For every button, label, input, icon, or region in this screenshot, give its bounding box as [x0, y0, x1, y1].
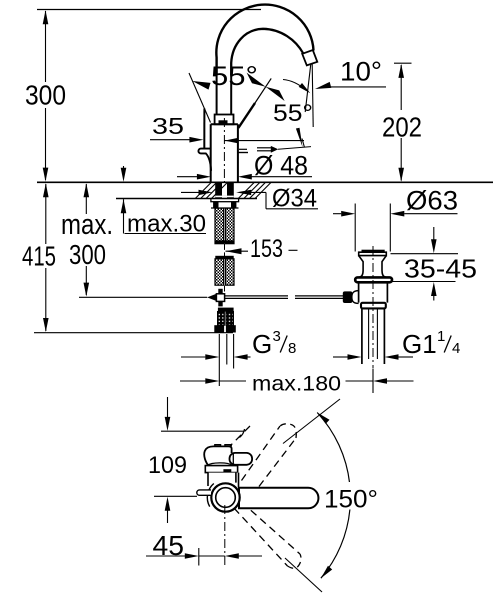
svg-text:153: 153: [250, 235, 283, 263]
faucet body: [211, 124, 238, 181]
svg-text:max.180: max.180: [252, 373, 341, 396]
waste locking ring: [361, 303, 386, 309]
flexible hoses: [218, 308, 234, 312]
plan lever grip: [230, 453, 253, 465]
svg-text:35-45: 35-45: [404, 254, 477, 284]
dimension diameter 63 extension lines: [354, 204, 356, 252]
dimension 153 leader: [226, 248, 242, 254]
svg-text:202: 202: [382, 112, 422, 143]
dimension 109 bottom extension: [154, 495, 197, 497]
angle 150 leg upper: [283, 399, 340, 444]
dimension max.180: [180, 380, 205, 382]
deck hatch left: [196, 183, 212, 199]
dimension 109: [167, 397, 169, 417]
svg-text:G1: G1: [402, 329, 437, 359]
dimension diameter 63: [333, 213, 341, 215]
plan cap top tabs: [215, 445, 232, 447]
dimension 202 top tick: [394, 62, 412, 64]
svg-text:1: 1: [437, 328, 445, 345]
plan body circle inner: [216, 488, 236, 508]
angle 55 bowtie arrows: [247, 73, 266, 87]
dimension 300: [45, 11, 47, 82]
angle 10 leader: [322, 86, 386, 88]
plan centerline: [224, 505, 226, 566]
bottom extension line 415: [34, 332, 233, 334]
plan body circle outer: [211, 483, 239, 511]
svg-text:45: 45: [153, 530, 185, 561]
angle 55 - tilted line right: [238, 103, 255, 128]
dimension 300 top extension line: [37, 9, 261, 11]
angle 150 label: [320, 482, 382, 509]
pull rod T-joint: [224, 286, 226, 292]
svg-text:3: 3: [273, 328, 281, 345]
deck hatch right: [239, 183, 255, 199]
angle 55 first - left arrow: [192, 81, 210, 90]
svg-text:Ø63: Ø63: [406, 186, 458, 216]
plan handle cap: [204, 446, 231, 467]
angle 55 second - arc: [283, 80, 307, 91]
outlet vertical line: [312, 64, 313, 127]
centerline faucet body: [223, 118, 225, 182]
dimension diameter 48: [177, 176, 197, 178]
washer under deck: [211, 199, 239, 202]
horizontal pop-up rod: [225, 295, 288, 297]
dimension G3/8: [181, 356, 205, 358]
svg-text:Ø 48: Ø 48: [254, 151, 308, 181]
svg-text:35: 35: [152, 113, 184, 139]
dimension 45: [146, 555, 185, 557]
svg-text:300: 300: [25, 80, 66, 111]
plan collar band: [205, 466, 237, 473]
G3/8 extension lines: [218, 334, 220, 386]
svg-text:max.: max.: [61, 209, 113, 241]
riser collar: [215, 115, 234, 125]
spout arc outer: [216, 5, 313, 75]
plan lever underside curve: [232, 465, 234, 471]
centerline gap segment: [224, 244, 226, 256]
handle lever: [203, 109, 205, 149]
countertop line: [37, 181, 493, 183]
dimension max.300: [85, 184, 87, 214]
collar black slot: [219, 120, 228, 123]
spout arc inner: [231, 29, 303, 75]
waste centerline: [372, 246, 374, 369]
plan base outer arc: [207, 484, 213, 507]
svg-text:109: 109: [148, 452, 187, 479]
body side tick right: [238, 152, 248, 154]
svg-text:415: 415: [22, 241, 56, 272]
plan left tab: [197, 490, 211, 495]
waste mounting flange: [355, 277, 392, 282]
waste body: [358, 283, 360, 303]
angle 150 arc: [317, 413, 349, 484]
waste neck taper: [359, 256, 387, 278]
angle 55 second down arrow: [296, 128, 303, 148]
svg-text:Ø34: Ø34: [272, 185, 317, 213]
plan spout capsule: [239, 488, 318, 509]
dimension max.30: [123, 166, 125, 169]
max.30 label underline: [125, 233, 207, 235]
deck lower line: [116, 198, 257, 200]
plan dashed spout lower: [234, 508, 288, 566]
pull rod left extension: [79, 296, 207, 298]
svg-text:55°: 55°: [273, 100, 313, 127]
angle 55 first - handle line: [189, 73, 211, 123]
svg-text:G: G: [252, 329, 272, 359]
dimension 202: [400, 65, 402, 110]
waste side port: [352, 291, 359, 304]
waste cap top: [362, 250, 385, 252]
angle 150 leg lower: [285, 558, 322, 592]
dimension diameter 34: [181, 191, 199, 193]
dimension G1 1/4: [333, 356, 348, 358]
dimension 35-45: [433, 227, 435, 241]
spout outlet aerator: [302, 50, 317, 65]
flow direction arrow: [257, 147, 271, 149]
svg-text:4: 4: [452, 340, 460, 357]
waste tailpipe: [361, 309, 363, 364]
faucet riser neck: [216, 75, 218, 115]
plan collar dark slot: [223, 469, 231, 472]
G1 1/4 extension right: [372, 369, 374, 393]
dimension 415: [45, 184, 47, 244]
svg-text:300: 300: [69, 239, 106, 270]
threaded rod upper: [215, 208, 224, 244]
outlet 10deg line: [305, 64, 311, 112]
plan dashed spout upper: [227, 424, 252, 449]
svg-text:150°: 150°: [324, 486, 378, 514]
faucet shank black section: [215, 183, 222, 199]
threaded rod lower: [215, 256, 233, 259]
hose end nuts: [214, 325, 224, 332]
waste rod knob: [343, 291, 353, 303]
svg-text:8: 8: [288, 340, 296, 357]
svg-text:max.30: max.30: [127, 211, 206, 238]
dimension 35-45 extension lines: [391, 253, 459, 255]
svg-text:10°: 10°: [340, 57, 382, 87]
plan body block: [208, 473, 239, 487]
dimension 45 extension: [198, 548, 200, 566]
dimension 109 top extension: [161, 430, 244, 432]
mounting nut: [213, 202, 218, 208]
